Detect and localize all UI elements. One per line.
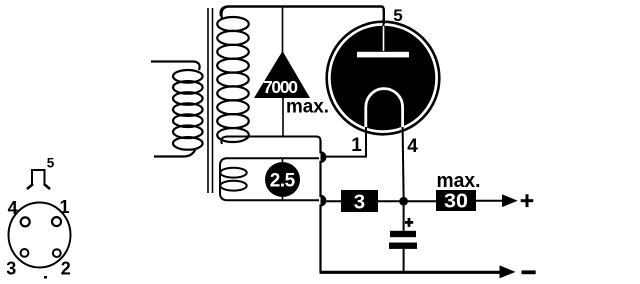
svg-text:4: 4 [407, 136, 418, 157]
svg-text:7000: 7000 [263, 77, 298, 97]
svg-text:1: 1 [351, 135, 362, 156]
bus hop blob at filament wire crossing [321, 152, 326, 163]
filament voltage marker 2.5 stub bottom [282, 196, 284, 201]
rectifier tube V1 black interior [331, 26, 436, 131]
filament voltage marker 2.5 circle [265, 162, 300, 197]
wire filament bottom lead to resistor 3 [322, 200, 341, 202]
filament winding turns [220, 168, 246, 191]
svg-text:max.: max. [286, 96, 329, 118]
capacitor polarity plus [405, 218, 413, 227]
socket mark dot [44, 276, 47, 279]
wire box 30 to plus arrow [476, 200, 503, 202]
wire junction to capacitor [403, 206, 405, 231]
plus output arrow [502, 194, 518, 207]
voltage marker stub above triangle [282, 7, 284, 54]
minus output arrow [500, 265, 516, 278]
rectifier tube V1 envelope [327, 22, 440, 135]
svg-text:5: 5 [47, 156, 55, 171]
plus sign [521, 194, 534, 207]
wire resistor 3 to junction [378, 200, 436, 202]
svg-text:2: 2 [61, 259, 71, 279]
negative output rail [320, 271, 501, 274]
socket pin hole 4 [21, 217, 30, 226]
svg-text:1: 1 [59, 197, 69, 217]
svg-text:30: 30 [444, 191, 468, 213]
svg-text:max.: max. [437, 170, 481, 192]
socket pin hole 3 [21, 249, 29, 257]
rectifier tube V1 filament arch [366, 89, 403, 129]
current marker box 3 [341, 190, 378, 212]
svg-text:5: 5 [393, 6, 402, 25]
rectifier tube V1 anode plate bar [357, 52, 409, 58]
wire from HV secondary top to plate cap [221, 7, 384, 25]
wire capacitor to negative rail [403, 249, 405, 272]
output marker box 30 [436, 190, 476, 211]
filter capacitor plates [390, 231, 416, 237]
socket pin hole 2 [53, 249, 61, 257]
negative bus with crossover hops [321, 140, 326, 272]
svg-text:3: 3 [354, 191, 365, 214]
wire tube pin 4 down to junction [403, 127, 404, 197]
transformer T1 primary winding [151, 62, 203, 157]
voltage marker stub below triangle [282, 98, 284, 136]
transformer T1 core [208, 8, 213, 193]
socket pin hole 1 [52, 217, 61, 226]
wire tube pin 1 to bus crossing [322, 127, 366, 157]
bus hop blob at output wire crossing [321, 196, 326, 206]
wire from HV secondary bottom to negative bus [221, 137, 320, 145]
svg-text:2.5: 2.5 [270, 170, 296, 191]
filament voltage marker 2.5 stub top [282, 158, 284, 163]
transformer T1 HV secondary winding [217, 7, 249, 143]
svg-text:3: 3 [6, 259, 16, 279]
minus sign [522, 270, 536, 274]
filament winding leads [220, 158, 319, 200]
rectifier tube V1 plate lead from top cap [383, 26, 385, 51]
socket top-cap symbol (pin 5) [27, 170, 50, 189]
voltage marker triangle 7000 max [254, 51, 310, 98]
junction node [399, 197, 408, 206]
socket base outline [9, 203, 71, 268]
svg-text:4: 4 [8, 198, 18, 218]
